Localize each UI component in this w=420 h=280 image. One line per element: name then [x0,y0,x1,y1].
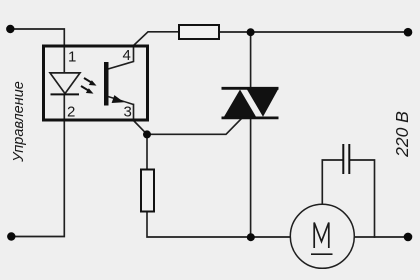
svg-text:Управление: Управление [11,81,27,163]
svg-text:1: 1 [68,49,76,66]
svg-text:2: 2 [67,104,75,121]
svg-text:3: 3 [124,104,132,121]
svg-text:220 В: 220 В [392,111,412,158]
svg-text:4: 4 [123,47,131,64]
